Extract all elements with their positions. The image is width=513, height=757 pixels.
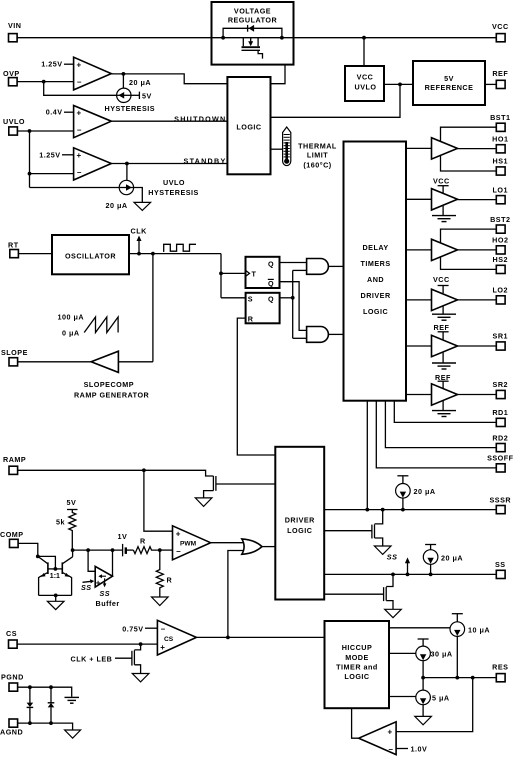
label SHUTDOWN [174,114,226,123]
node AGND diode2 [49,721,53,725]
svg-text:1.25V: 1.25V [39,150,60,159]
pin COMP [0,530,24,548]
svg-text:BST1: BST1 [490,113,510,122]
pin HS2 [493,255,508,273]
wire OR lower input [228,551,244,638]
svg-text:Q: Q [268,259,274,268]
node PGND diode1 [28,685,32,689]
label REF driver U5 [434,323,450,340]
wire standby to logic [111,163,227,165]
svg-text:+: + [77,108,82,117]
diode D2 [48,687,55,723]
wire delay to driver U6 [406,394,432,396]
svg-text:SSOFF: SSOFF [487,454,513,463]
svg-text:VCC: VCC [433,177,450,186]
current source I2 20uA [423,545,438,575]
driver U5 SR1 [432,335,458,356]
body diode loop [223,25,282,38]
pin HO1 [492,135,508,153]
node SSSR source [401,508,405,512]
node standby output [125,162,129,181]
battery 1V [118,532,134,556]
AND gate A2 [307,327,329,343]
wire PGND rail [18,687,72,697]
SR latch U_SR [246,293,280,324]
svg-text:20 μA: 20 μA [414,487,436,496]
svg-text:HO1: HO1 [492,135,508,144]
svg-text:CS: CS [6,629,17,638]
wire hysteresis to ground [133,188,142,203]
svg-text:–: – [77,77,82,86]
svg-text:(160°C): (160°C) [303,161,331,170]
svg-text:CLK + LEB: CLK + LEB [71,654,113,663]
pin LO1 [493,185,508,203]
node SS source [429,573,433,577]
slopecomp ramp generator [91,351,118,372]
label 5 uA [432,694,450,703]
ground Q_RAMP [195,498,212,507]
svg-text:SLOPE: SLOPE [1,348,28,357]
driver U4 LO2 [432,289,458,310]
ground driver U5 [432,353,456,369]
pin SSSR [490,495,512,513]
svg-text:SS: SS [387,553,398,562]
wire AGND rail [18,723,73,730]
wire CS to comparator [17,643,157,645]
label REF driver U6 [435,373,451,388]
5V tick [131,92,152,101]
transistor Q_SS1 [372,510,383,546]
pass transistor Q_REG [242,38,263,59]
wire OVP to comparator [17,81,74,83]
pin RES [492,663,508,682]
svg-text:COMP: COMP [0,530,24,539]
OR gate O1 [242,539,262,554]
wire OVP output to logic [111,74,227,84]
ground Q_LEB [132,674,149,682]
svg-text:SS: SS [100,589,111,598]
wire oscillator output [129,253,221,255]
svg-text:REFERENCE: REFERENCE [425,83,474,92]
svg-text:SSSR: SSSR [490,495,512,504]
sawtooth waveform [84,317,118,333]
label 0 uA [62,328,80,337]
wire SR1 [458,345,497,347]
pin LO2 [493,286,508,304]
driver U1 HO1 [432,138,458,159]
svg-text:BST2: BST2 [490,215,510,224]
label VCC driver U2 [433,177,450,193]
node dot VCC rail [362,36,366,40]
svg-text:1V: 1V [118,532,128,541]
label 20 uA hysteresis [129,78,151,87]
label HYSTERESIS [105,104,156,113]
transistor Q_LEB [132,644,141,673]
label SS fet1 [387,553,398,562]
label SS buffer [96,589,120,608]
comparator UVLO shutdown [74,106,112,138]
wire hysteresis feedback [44,82,117,96]
svg-text:DRIVER: DRIVER [361,291,391,300]
pin AGND [0,719,23,736]
svg-text:–: – [161,624,166,633]
pin RAMP [3,455,26,475]
wire SSOFF [376,401,496,468]
label 20 uA uvlo [106,201,128,210]
resistor R shunt [156,550,172,597]
svg-text:LO2: LO2 [493,286,508,295]
svg-text:MODE: MODE [345,653,369,662]
svg-text:UVLO: UVLO [3,117,25,126]
wire LO1 [458,199,497,201]
wire to PWM inverting [160,549,173,551]
label VCC driver U4 [433,275,450,293]
svg-text:0 μA: 0 μA [62,328,80,337]
pin SR2 [493,380,508,398]
svg-text:SS: SS [495,560,506,569]
wire hysteresis to UVLO node [30,187,120,189]
svg-text:+: + [160,643,165,652]
wire UVLO lower tap [28,172,74,176]
transistor Q_B mirror right [62,550,72,595]
5V supply tick [67,498,78,510]
pin HO2 [492,236,508,254]
svg-text:–: – [176,547,181,556]
current source I4 30uA [416,639,431,678]
comparator CS [157,620,196,655]
wire regulator to logic [271,65,286,84]
wire SR Q to AND gates [280,270,307,338]
svg-text:REF: REF [492,69,508,78]
pin BST1 [490,113,510,131]
svg-text:20 μA: 20 μA [441,553,463,562]
node AGND diode1 [28,721,32,725]
label 100 uA [58,313,85,322]
node COMP collector [36,555,40,559]
node RAMP tap [142,468,146,472]
svg-text:T: T [252,269,257,278]
thermal limit thermometer [283,127,291,166]
wire to REF pin [485,83,496,85]
wire delay to driver U1 [406,147,432,149]
svg-text:REGULATOR: REGULATOR [228,16,278,25]
node PGND diode2 [49,685,53,689]
current source I5 5uA [416,678,431,717]
svg-text:Q: Q [268,294,274,303]
ground AGND [65,730,81,738]
svg-text:LIMIT: LIMIT [307,151,328,160]
svg-text:SHUTDOWN: SHUTDOWN [174,114,226,123]
svg-text:HICCUP: HICCUP [342,643,373,652]
svg-text:SLOPECOMP: SLOPECOMP [84,380,134,389]
VCC UVLO box [345,66,384,101]
resistor R series [133,537,159,554]
ground driver U6 [432,401,456,417]
node CLK [137,252,141,256]
node SSSR delay [365,508,369,512]
wire SS line [324,573,496,575]
svg-text:PWM: PWM [180,541,197,548]
svg-text:20 μA: 20 μA [129,78,151,87]
SS up arrow [405,557,410,574]
wire shutdown to logic [111,120,227,122]
svg-text:RD1: RD1 [492,408,508,417]
label 0.4V [46,108,74,117]
svg-text:VCC: VCC [433,275,450,284]
wire CS output [196,636,324,638]
wire rail to VCC UVLO [363,38,365,66]
svg-text:STANDBY: STANDBY [184,157,227,166]
label 1:1 [50,573,60,580]
pin PGND [1,672,24,691]
svg-text:THERMAL: THERMAL [298,141,337,150]
oscillator box [52,235,129,274]
node SS arrow [406,573,410,577]
svg-text:VCC: VCC [492,22,509,31]
driver U3 HO2 [432,239,458,260]
svg-text:+: + [96,578,101,587]
node RES 10uA [455,676,459,680]
pin RT [8,241,19,258]
pin HS1 [493,157,508,175]
ground R shunt [152,597,169,606]
wire gate Q_SS2 [324,593,383,595]
svg-text:LOGIC: LOGIC [287,526,312,535]
driver logic box [275,447,324,600]
label 20 uA I1 [414,487,436,496]
pin SLOPE [1,348,28,366]
hiccup mode box [325,621,390,708]
clock waveform glyph [163,244,196,251]
logic box [227,77,270,174]
AND gate A1 [307,259,329,275]
wire delay to driver U4 [406,299,432,301]
ground mirror [47,601,64,609]
svg-text:HS1: HS1 [493,157,508,166]
thermal limit label [298,141,337,169]
wire HO2 [458,249,497,251]
label CLK + LEB [71,654,113,663]
svg-text:AGND: AGND [0,727,23,736]
node OVP output [122,72,126,88]
pin UVLO [3,117,25,135]
svg-text:DRIVER: DRIVER [285,515,315,524]
svg-text:+: + [176,530,181,539]
svg-text:UVLO: UVLO [163,178,185,187]
svg-text:20 μA: 20 μA [106,201,128,210]
svg-text:+: + [388,728,393,737]
wire SR2 [458,394,497,396]
label RAMP GENERATOR [74,390,150,399]
wire VCC UVLO to 5V reference [384,83,413,85]
pin RD1 [492,408,508,426]
wire S input [221,297,246,299]
svg-text:5V: 5V [142,92,152,101]
svg-text:5k: 5k [56,518,65,527]
CLK arrow [137,236,142,254]
wire logic to thermometer [271,148,283,150]
svg-text:CLK: CLK [131,227,148,236]
node RES 30uA [421,676,425,680]
svg-text:SR1: SR1 [493,332,508,341]
svg-text:5V: 5V [67,498,77,507]
voltage regulator box [212,2,294,65]
svg-text:R: R [167,575,173,584]
pin OVP [3,69,20,86]
svg-text:5V: 5V [444,74,454,83]
node SSSR fet drain [381,508,385,512]
node T input branch [219,254,223,298]
earth ground PGND [65,697,80,703]
wire RAMP line [18,470,214,476]
svg-text:S: S [248,294,253,303]
svg-text:HYSTERESIS: HYSTERESIS [148,188,199,197]
node CS OR branch [226,636,230,640]
svg-text:AND: AND [367,275,384,284]
wire PWM to OR [211,542,244,544]
svg-text:UVLO: UVLO [355,83,377,92]
wire BST2 [441,229,497,243]
svg-text:LOGIC: LOGIC [344,672,369,681]
node COMP rail left [71,548,75,552]
wire AND1 output [328,265,343,267]
label SLOPECOMP [84,380,134,389]
svg-text:LOGIC: LOGIC [236,122,261,131]
node SR Q [291,296,295,300]
svg-text:PGND: PGND [1,672,24,681]
node OVP feedback [42,80,46,84]
transistor Q_SS2 [384,574,393,609]
svg-text:SR2: SR2 [493,380,508,389]
svg-text:+: + [77,60,82,69]
svg-text:OSCILLATOR: OSCILLATOR [65,251,116,260]
wire delay to driver U3 [406,249,432,251]
node dot REF feed [398,83,402,87]
wire RES to comparator plus [396,678,473,732]
wire RAMP to PWM [144,470,173,531]
wire VIN rail through regulator [212,37,294,39]
node buffer input [86,548,90,552]
wire hiccup to 5uA [389,696,417,698]
wire HO1 [458,148,497,150]
node UVLO [28,129,32,187]
svg-text:TIMER and: TIMER and [336,663,378,672]
wire SSSR line [324,509,496,511]
wire into T input [221,272,246,274]
ground UVLO hysteresis [134,202,151,210]
svg-text:1.25V: 1.25V [41,60,62,69]
svg-text:–: – [77,125,82,134]
wire hiccup to 10uA [389,627,451,629]
current source I3 10uA [450,614,465,678]
svg-text:+: + [77,151,82,160]
svg-text:1.0V: 1.0V [411,745,428,754]
wire RD2 [385,401,496,448]
wire buffer output [112,550,114,576]
diode D1 [27,687,34,723]
svg-text:R: R [248,314,254,323]
svg-text:30 μA: 30 μA [431,650,453,659]
node dot regulator left [221,36,225,40]
wire Q to AND1 [280,262,307,264]
svg-text:0.4V: 0.4V [46,108,63,117]
5V reference box [413,61,485,105]
node slope branch [151,252,155,256]
label CLK [131,227,148,236]
svg-text:RT: RT [8,241,19,250]
svg-text:1:1: 1:1 [50,573,60,580]
label 0.75V [122,625,157,634]
ground 5uA [415,716,432,724]
wire hiccup comparator output [352,708,359,738]
svg-text:Buffer: Buffer [96,599,120,608]
wire buffer input [88,550,95,571]
pin SSOFF [487,454,513,472]
wire gate Q_LEB [115,657,132,659]
resistor 5k [56,510,76,551]
label UVLO HYSTERESIS [148,178,199,197]
wire slopecomp input [118,361,152,363]
wire BST1 [441,127,497,141]
T flip-flop U_T [246,257,280,288]
wire RES line [423,677,496,679]
wire delay to driver U5 [406,345,432,347]
label 1.25V OVP [41,60,73,69]
svg-text:RAMP GENERATOR: RAMP GENERATOR [74,390,150,399]
svg-text:HS2: HS2 [493,255,508,264]
svg-text:R: R [140,537,146,546]
current source OVP hysteresis [117,88,131,102]
svg-text:VOLTAGE: VOLTAGE [234,7,271,16]
svg-text:TIMERS: TIMERS [361,259,391,268]
comparator PWM [173,526,211,560]
node RES comparator [471,676,475,680]
wire RT to oscillator [18,253,52,255]
transistor Q_RAMP discharge [204,476,276,498]
transistor Q_A mirror left [38,556,48,595]
label STANDBY [184,157,227,166]
pin VCC [492,22,509,42]
ground Q_SS1 [374,546,391,554]
ground driver U2 [432,206,456,222]
pin CS [6,629,17,648]
svg-text:VIN: VIN [8,21,21,30]
node buffer output [111,548,115,552]
node CS tap [139,642,143,646]
pin BST2 [490,215,510,233]
ground Q_SS2 [385,609,402,617]
wire HS2 [441,256,497,269]
svg-text:VCC: VCC [357,73,374,82]
svg-text:0.75V: 0.75V [122,625,143,634]
svg-text:RD2: RD2 [492,433,508,442]
node dot regulator right [280,36,284,40]
svg-text:HO2: HO2 [492,236,508,245]
label 20 uA I2 [441,553,463,562]
current source I1 20uA [396,476,411,510]
wire LO2 [458,299,497,301]
svg-text:100 μA: 100 μA [58,313,85,322]
comparator UVLO standby [74,148,112,180]
wire COMP rail [73,549,122,551]
wire RD1 [394,401,496,423]
delay timers box [344,142,407,401]
SS buffer amplifier [95,566,112,587]
svg-text:HYSTERESIS: HYSTERESIS [105,104,156,113]
wire COMP entry [18,543,55,569]
label 1.0V [396,745,427,754]
wire mirror emitters rail [39,594,72,602]
